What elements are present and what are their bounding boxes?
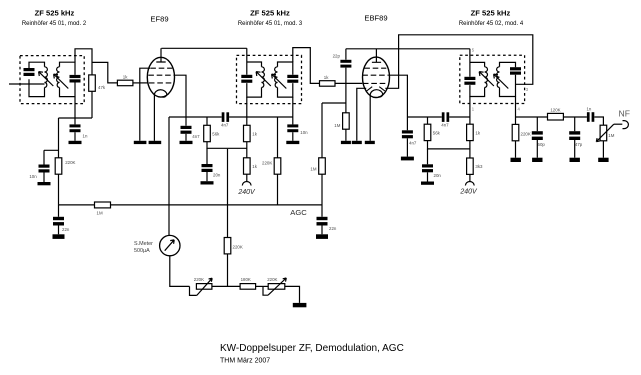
capacitor C19 47p (AF filter shunt) (569, 117, 580, 140)
svg-text:4n7: 4n7 (441, 123, 449, 128)
wire R12 to R13 (469, 141, 471, 158)
V1 anode (156, 48, 165, 62)
V2 cathode arc (370, 90, 383, 97)
ground (P1) (598, 158, 608, 162)
svg-text:ZF 525 kHz: ZF 525 kHz (35, 9, 75, 18)
wire R11 to node C (428, 141, 470, 149)
wire V2 diode left to ground (357, 88, 366, 141)
svg-text:20n: 20n (213, 173, 221, 178)
ground (V2 diode left) (352, 141, 362, 144)
capacitor C10 10n (secondary return bypass) (287, 124, 298, 132)
wire C5 to ground (185, 134, 187, 141)
svg-text:500µA: 500µA (134, 248, 150, 254)
resistor R8 220K (AGC decoupling 2) (274, 158, 281, 174)
wire T3 primary bottom pin1 to rail (469, 97, 471, 125)
potentiometer P2 220K (meter zero) (196, 284, 212, 290)
svg-text:KW-Doppelsuper ZF, Demodulatio: KW-Doppelsuper ZF, Demodulation, AGC (220, 343, 404, 354)
V2 diode plate right (379, 87, 385, 91)
wire R7 to V2 grid (335, 82, 362, 84)
ground (C13) (401, 157, 414, 161)
wire input stub to T1 primary (9, 83, 45, 85)
supply arc 240V (right) (465, 181, 474, 185)
wire R3 to AGC bus (58, 174, 60, 205)
ground (C18) (532, 158, 542, 162)
ground (R14) (511, 158, 521, 162)
svg-text:Reinhöfer 45 01, mod. 3: Reinhöfer 45 01, mod. 3 (238, 21, 303, 27)
wire R5 to R6 (246, 142, 248, 158)
V1 cathode arc (154, 90, 167, 97)
capacitor C3 1n (secondary return bypass) (70, 124, 81, 132)
wire node A down to AGC branch (58, 118, 60, 158)
svg-text:240V: 240V (237, 189, 256, 196)
T1 primary tank loop L1 (29, 62, 45, 96)
trimmer arrow L4 (272, 74, 287, 88)
svg-text:60p: 60p (538, 142, 546, 147)
capacitor C11 22p (anode to diode grid node) (340, 49, 351, 113)
svg-text:180K: 180K (241, 277, 251, 282)
capacitor C14 4n7 (rail series right) (442, 112, 449, 122)
wire R9 to ground (345, 129, 347, 141)
trimmer arrow L6 (494, 74, 509, 88)
resistor R13 3k3 (supply 2) (467, 158, 474, 174)
wire AGC branch from rail (277, 117, 279, 158)
V1 grid g3 (dashed) (150, 67, 172, 69)
svg-text:EF89: EF89 (150, 14, 168, 23)
svg-text:220K: 220K (233, 244, 243, 249)
inductor L3 winding bumps (262, 67, 265, 88)
V2 grid g2 (dashed) (362, 74, 388, 76)
wire C15 to ground (427, 172, 429, 181)
V2 grid g3 (dashed) (364, 67, 386, 69)
capacitor C9 (T2 secondary, inline plates) (287, 75, 298, 83)
wire meter branch from rail (168, 117, 170, 235)
wire screen rail (left section) (169, 116, 222, 118)
resistor R10 1M (AGC return) (319, 158, 326, 174)
resistor R16 1M (AGC bus series) (95, 202, 111, 208)
V2 anode (372, 49, 381, 63)
resistor R11 56k (screen feed 2) (424, 124, 431, 140)
ground (C19) (570, 158, 580, 162)
svg-text:1M: 1M (334, 123, 340, 128)
wire C19 to ground (574, 140, 576, 158)
wire R2 to EF89 grid (133, 82, 148, 84)
wire V1 anode to T2 primary (161, 47, 246, 49)
resistor R4 56k (screen feed) (204, 125, 211, 141)
resistor R5 1k (supply) (244, 125, 251, 141)
svg-text:4n7: 4n7 (409, 140, 417, 145)
capacitor C16 (T3 primary, inline plates) (464, 77, 475, 85)
wire P3 to ground (285, 286, 300, 303)
NF output connector (623, 121, 629, 129)
svg-text:10n: 10n (29, 174, 37, 179)
svg-text:NF: NF (619, 109, 630, 119)
capacitor C20 1n (AF coupling) (587, 112, 594, 122)
ground (R9) (341, 141, 351, 144)
svg-text:220K: 220K (267, 277, 277, 282)
resistor R6 1k (supply) (244, 158, 251, 174)
trimmer arrow L3 (256, 72, 271, 86)
svg-text:20n: 20n (434, 173, 442, 178)
svg-text:220K: 220K (262, 160, 272, 165)
tube V2 EBF89 envelope (363, 57, 390, 97)
wire T1 secondary bottom to node A (74, 97, 76, 125)
svg-text:ZF 525 kHz: ZF 525 kHz (471, 9, 511, 18)
wire supply riser T2 primary bottom (246, 97, 248, 125)
wire R13 to supply entry (469, 174, 471, 181)
wire R14 to ground (515, 141, 517, 158)
capacitor C1 (T1 primary, inline plates) (24, 68, 35, 76)
wire V2 cathode to ground (369, 94, 371, 141)
svg-text:1k: 1k (123, 74, 128, 79)
wire rail right of C6 (229, 116, 293, 118)
resistor R3 220K (AGC decoupling) (55, 158, 62, 174)
capacitor C2 (T1 secondary, inline plates) (70, 75, 81, 83)
V2 grid g1 (dashed) (363, 82, 388, 84)
P1 wiper arrow (596, 124, 614, 142)
wire node A horizontal (T1 secondary return) (59, 117, 93, 119)
potentiometer P1 1M (volume) (600, 125, 607, 141)
wire R4 to node B (207, 142, 247, 149)
meter M1 needle arrow (165, 240, 175, 251)
svg-text:22n: 22n (329, 226, 337, 231)
svg-text:56k: 56k (212, 131, 220, 136)
wire R6 to supply entry (246, 174, 248, 181)
svg-text:1n: 1n (83, 134, 88, 139)
ground (V1 cathode) (149, 141, 162, 144)
V1 grid g1 (dashed) (149, 82, 174, 84)
wire R17 to pot row (227, 254, 229, 287)
wire C7 to ground (206, 172, 208, 181)
resistor R9 1M (diode load leak) (343, 113, 350, 129)
wire AGC bus (59, 204, 323, 206)
wire meter to potentiometer row (170, 256, 190, 287)
wire R10 riser (321, 103, 323, 158)
svg-text:22n: 22n (62, 227, 70, 232)
resistor R2 1k (grid stopper) (117, 80, 132, 86)
T3 primary tank loop L5 (470, 49, 485, 97)
wire P1 to ground (602, 141, 604, 158)
wire rail right of C14 (449, 116, 470, 118)
resistor R7 1k (V2 grid stopper) (320, 81, 336, 87)
wire V2 diode right riser and top link (385, 35, 533, 89)
meter M1 circle (160, 235, 180, 255)
wire grid spur to R2 (92, 62, 117, 83)
ground (C4) (38, 182, 51, 185)
wire rail to R11 (427, 117, 429, 124)
V2 diode plate left (367, 87, 373, 91)
T3 secondary tank loop L6 (500, 62, 516, 96)
svg-text:220K: 220K (65, 160, 75, 165)
svg-text:56k: 56k (433, 130, 441, 135)
inductor L2 winding bumps (57, 67, 60, 88)
wire V2 g2 to rail (388, 75, 407, 130)
svg-text:1n: 1n (586, 106, 591, 111)
inductor L6 winding bumps (497, 67, 500, 88)
wire C18 to ground (536, 140, 538, 158)
svg-text:3k3: 3k3 (475, 164, 483, 169)
svg-text:47p: 47p (575, 142, 583, 147)
svg-text:1M: 1M (608, 133, 614, 138)
resistor R14 220K (diode load) (512, 124, 519, 140)
P2 wiper arrow (197, 278, 212, 295)
IF transformer T3 shield box (dashed) (460, 55, 525, 103)
svg-text:220K: 220K (521, 132, 531, 137)
svg-text:1M: 1M (97, 210, 103, 215)
wire C12 to ground (321, 226, 323, 235)
IF transformer T2 shield box (dashed) (237, 55, 302, 103)
wire T3 pin 4 to detector bus (515, 97, 517, 118)
wire V1 g2 to screen node (174, 75, 186, 126)
ground (pot row) (293, 303, 307, 307)
potentiometer P3 220K (AGC set) (268, 284, 285, 290)
capacitor C6 4n7 (rail series) (222, 112, 229, 122)
T2 primary tank loop L3 (247, 48, 262, 97)
svg-text:4n7: 4n7 (192, 134, 200, 139)
wire bus to R14 (515, 117, 517, 124)
P3 wiper arrow (268, 278, 286, 295)
wire rail to R4 (206, 117, 208, 125)
wire R8 to AGC bus (277, 174, 279, 205)
svg-text:22p: 22p (333, 54, 341, 59)
ground (V1 g3) (134, 141, 147, 144)
capacitor C7 20n (node B bypass) (202, 148, 213, 172)
wire branch to C4 (44, 150, 59, 164)
wire AGC link from R10 top to grid node (322, 102, 346, 104)
IF transformer T1 shield box (dashed) (20, 56, 84, 104)
svg-text:4n7: 4n7 (221, 123, 229, 128)
wire detector bus (516, 116, 548, 118)
ground (C12) (316, 234, 328, 239)
svg-text:1M: 1M (310, 167, 316, 172)
svg-text:240V: 240V (459, 188, 478, 195)
trimmer arrow L2 (54, 74, 69, 88)
wire C13 to ground (406, 138, 408, 156)
resistor R15 120K (AF filter series) (548, 113, 564, 120)
wire T2 secondary bottom to rail node (292, 97, 294, 124)
P3 wiper tie (263, 286, 268, 295)
resistor R12 1k (supply 2) (467, 124, 474, 140)
inductor L4 winding bumps (275, 67, 278, 88)
ground (C5) (180, 141, 193, 144)
svg-text:Reinhöfer 45 01, mod. 2: Reinhöfer 45 01, mod. 2 (22, 21, 87, 27)
ground (V2 cathode) (365, 141, 375, 144)
capacitor C15 20n (node C bypass) (422, 149, 433, 172)
wire meter divider chain (227, 149, 229, 238)
supply arc 240V (left) (242, 182, 251, 186)
svg-text:1k: 1k (324, 75, 329, 80)
wire V2 anode line (346, 48, 470, 50)
capacitor C18 60p (RF filter) (532, 117, 543, 140)
ground (C21) (53, 234, 65, 239)
svg-text:THM März 2007: THM März 2007 (220, 358, 270, 365)
svg-text:S.Meter: S.Meter (134, 241, 153, 247)
svg-text:Reinhöfer 45 02, mod. 4: Reinhöfer 45 02, mod. 4 (459, 21, 524, 27)
svg-text:1k: 1k (475, 130, 480, 135)
svg-text:AGC: AGC (290, 208, 307, 217)
wire R1 bottom to node A (91, 91, 93, 118)
wire R18 to P3 (256, 285, 269, 287)
trimmer arrow L1 (39, 72, 54, 86)
capacitor C17 (T3 secondary, inline plates) (510, 67, 521, 75)
V1 grid g2 (dashed) (148, 74, 174, 76)
tube V1 EF89 envelope (147, 57, 174, 97)
wire T2 secondary top bridge (293, 48, 320, 84)
wire V1 cathode to ground (153, 94, 155, 140)
wire P2 to junction (212, 285, 240, 287)
capacitor C13 4n7 (V2 g2 bypass) (402, 130, 413, 138)
capacitor C5 4n7 (V1 g2 bypass) (181, 126, 192, 134)
resistor R18 180K (pot row series) (240, 284, 256, 290)
capacitor C8 (T2 primary, inline plates) (241, 75, 252, 83)
svg-text:10n: 10n (300, 130, 308, 135)
capacitor C4 10n (AGC filter) (39, 165, 50, 173)
wire C21 to ground (58, 226, 60, 235)
ground (C10) (286, 141, 299, 144)
T2 secondary tank loop L4 (278, 62, 293, 97)
svg-text:1k: 1k (252, 131, 257, 136)
wire C20 to volume pot (594, 117, 603, 125)
inductor L1 winding bumps (45, 67, 48, 88)
resistor R1 47k (grid leak) (89, 75, 96, 91)
resistor R17 220K (meter divider) (224, 238, 231, 254)
wire C10 to ground (292, 132, 294, 141)
svg-text:120K: 120K (550, 107, 560, 112)
capacitor C12 22n (AGC filter right) (317, 217, 328, 226)
svg-text:EBF89: EBF89 (364, 14, 387, 23)
T1 secondary tank loop L2 (60, 62, 76, 96)
trimmer arrow L5 (479, 72, 494, 86)
capacitor C21 22n (AGC filter left) (53, 205, 64, 226)
wire P1 wiper to NF output (614, 123, 623, 125)
wire T1 secondary top bridge to grid network (75, 49, 92, 75)
svg-text:47k: 47k (98, 85, 106, 90)
wire R15 to C19 node (563, 116, 587, 118)
ground (C15) (421, 182, 434, 185)
svg-text:1k: 1k (252, 164, 257, 169)
wire C4 to ground (43, 173, 45, 183)
svg-text:ZF 525 kHz: ZF 525 kHz (250, 9, 290, 18)
inductor L5 winding bumps (485, 67, 488, 88)
wire screen rail V2 section (407, 116, 441, 118)
svg-text:220K: 220K (194, 277, 204, 282)
wire C3 to ground (74, 132, 76, 141)
wire V1 g3 to ground (140, 68, 150, 141)
ground (C3) (69, 141, 82, 144)
wire R10 to AGC bus end (321, 174, 323, 217)
ground (C7) (201, 181, 214, 184)
P2 wiper tie (190, 286, 197, 295)
